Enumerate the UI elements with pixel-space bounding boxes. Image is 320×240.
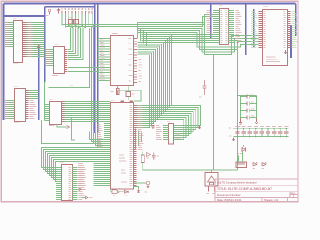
power arrow IC6 [284, 50, 286, 54]
wire CN3 bottom right [134, 187, 139, 189]
wire CN2 to buzzer vertical 2 [213, 55, 215, 171]
buzzer pins [207, 186, 215, 194]
wire rail A [62, 15, 213, 25]
crystal X1 [126, 92, 135, 97]
pin stubs IC4 right [62, 102, 65, 122]
svg-text:Sheets: 1/1: Sheets: 1/1 [264, 198, 279, 202]
svg-text:TITLE: ELITE-COMP-A-2863-BD-B: TITLE: ELITE-COMP-A-2863-BD-B7 [217, 187, 272, 191]
pin numbers inside CN4 [69, 167, 72, 200]
wire link x41 [42, 120, 109, 144]
capacitor bank C1-C4 [237, 95, 258, 120]
svg-text:Document Number:: Document Number: [217, 193, 241, 197]
power flag IC4 [65, 126, 69, 129]
net labels RN1 right [175, 125, 181, 138]
capacitor C9 small [152, 126, 155, 130]
wire header drop long C [93, 25, 95, 132]
wire IC5 left pins from bus [98, 39, 111, 81]
diode D4 [262, 162, 267, 169]
wire R10 top [142, 152, 144, 156]
wire long net y87 [49, 85, 91, 88]
net labels IC6 right [292, 11, 298, 48]
pin stubs IC2 right [25, 91, 29, 119]
wire CN3 lower left rows [94, 164, 111, 186]
wire RN1 left pins [163, 126, 169, 140]
net labels CN1 left [6, 22, 10, 47]
connector CN2 body [219, 5, 229, 44]
pin numbers IC5 right [129, 38, 133, 81]
net labels CN3 left [97, 124, 102, 147]
wire CN2 to buzzer net vertical [234, 41, 238, 171]
net labels CN4 right [79, 167, 86, 200]
bus net B3 vertical pair center [95, 4, 98, 133]
speaker LS1 body [236, 162, 247, 168]
wire speaker stubs [237, 152, 243, 162]
diode D1 [240, 145, 246, 154]
IC2 body [14, 86, 26, 123]
wire fan bundle right of IC5 [137, 34, 173, 129]
wire header drops [62, 14, 92, 29]
gate G1 [112, 190, 119, 196]
connector CN1 body [13, 18, 23, 64]
title block [215, 179, 298, 202]
power symbol right rail [255, 119, 257, 124]
power +5V flag on bus [36, 45, 41, 51]
power flag P2 [57, 9, 59, 14]
wire rail B [65, 17, 213, 27]
power arrow RN2 left [232, 138, 234, 142]
net labels CN1 right [28, 22, 33, 57]
wire IC4 bottom stub [57, 124, 66, 127]
wire buzzer feed [211, 170, 213, 173]
IC4 body [49, 99, 62, 126]
wire vertical links IC5 to rails [138, 23, 173, 47]
net labels IC2 left [6, 100, 10, 119]
pin stubs IC6 left [259, 12, 263, 48]
bus net B9 top-left horizontal [4, 15, 45, 17]
svg-text:Date: 8/18/13 23:01: Date: 8/18/13 23:01 [217, 198, 242, 202]
wire IC4 right wires to CN3 [65, 102, 111, 122]
power arrow near RN1 [198, 126, 200, 130]
IC3 body 74xx [52, 44, 65, 76]
diode D3 [253, 162, 258, 169]
pin marks CN3 top [121, 101, 134, 103]
capacitor C8 [199, 80, 207, 97]
buzzer SG1 [205, 173, 218, 187]
net labels RN1 left [156, 125, 162, 140]
bus net B8 right stub2 [253, 9, 255, 47]
pin numbers inside CN3 [130, 105, 133, 186]
net labels IC6 left [251, 11, 257, 48]
pin stubs IC6 right [287, 12, 291, 48]
net labels CN2 right [236, 10, 242, 43]
resistor network RN1 body [167, 121, 174, 144]
wire CN1 left pin stubs [5, 23, 14, 47]
bus net B2 right inner [290, 25, 292, 58]
pin stubs IC5 right [134, 39, 138, 83]
IC5 body 8049 [111, 33, 134, 85]
ground symbol under cap bank [238, 119, 242, 127]
sheet border frame [1, 1, 298, 201]
resistor R11 under IC5 [111, 89, 120, 95]
net labels CN3 lower left [78, 163, 86, 186]
part labels inside CN3 [119, 155, 127, 183]
wire under IC5 [118, 86, 141, 102]
wire IC2 right to bus [29, 91, 39, 99]
wire vertical feed IC4 [44, 81, 46, 120]
wire hook bundle to RN1 [158, 106, 201, 140]
connector CN4 body [60, 162, 73, 200]
power arrow G3 [137, 189, 139, 193]
capacitor C10 small [152, 153, 159, 161]
wire IC3 right staircase to top rails [68, 28, 100, 72]
bus net B1 outer rectangle [4, 4, 296, 121]
wire CN3 left pin stubs [104, 106, 111, 186]
wire CN2 right pin stubs [228, 11, 234, 43]
wire IC3 left pins from bus B4 [45, 50, 53, 66]
IC6 body [263, 6, 288, 65]
net labels IC2 right [30, 100, 37, 119]
bus net B5 left inner vertical [38, 44, 40, 120]
bus net B7 right stub [245, 4, 247, 56]
wire wrap bundle to IC6 [138, 23, 259, 55]
net labels IC5 left [100, 39, 105, 79]
wire link x71 [72, 118, 76, 140]
wire CN2 left pin stubs [213, 11, 220, 43]
wire IC4 left pins from bus [45, 105, 50, 121]
wire gate link [119, 191, 124, 193]
wire stubs below fan [136, 129, 142, 151]
wire nest bundle CN3 to CN4 [42, 148, 111, 182]
pin stubs IC3 right [64, 50, 67, 72]
bus net B4 left loop [45, 7, 95, 82]
net labels CN3 right [138, 105, 143, 150]
net labels IC5 right [139, 59, 143, 82]
wire bus exit staircase [90, 132, 111, 148]
wire header drop long A [89, 29, 91, 88]
connector CN3 body [111, 100, 134, 189]
gate G2 inverter [125, 190, 129, 196]
wire IC2 left pin stubs [5, 101, 15, 119]
ground flag A [75, 188, 86, 191]
bus net B6 top right stub [210, 4, 212, 39]
pin header JP1 pins [61, 8, 93, 14]
pin stubs CN1 right [23, 23, 27, 57]
wire CN3 bottom left [111, 189, 112, 192]
resistor row R1-R9 [229, 126, 289, 137]
power flag P1 [46, 9, 51, 16]
wire R10 to buzzer net [143, 163, 238, 171]
pin numbers inside IC6 [264, 11, 286, 48]
pin stubs CN3 right [134, 106, 137, 186]
pin numbers inside CN2 [221, 10, 228, 43]
resistor R10 [141, 155, 149, 163]
svg-text:A.B.TE Compaq slimline keyboar: A.B.TE Compaq slimline keyboard [217, 180, 257, 184]
power flag G4 [134, 181, 150, 192]
net labels CN2 left [207, 10, 212, 33]
ground flag B [82, 196, 93, 199]
net labels IC3 left [46, 49, 51, 66]
jumper JP2 [68, 17, 79, 24]
wire CN1 right to bus B4 [27, 23, 45, 57]
wire header drop long B [91, 27, 93, 134]
diode D2 [147, 153, 151, 157]
wire CN4 right pin stubs [72, 168, 78, 200]
wire CN4 left lower stubs [56, 184, 62, 200]
wire jumper connections [71, 24, 76, 28]
part text inside IC6 [266, 57, 280, 62]
wire group to CN2 left pins [142, 35, 214, 43]
